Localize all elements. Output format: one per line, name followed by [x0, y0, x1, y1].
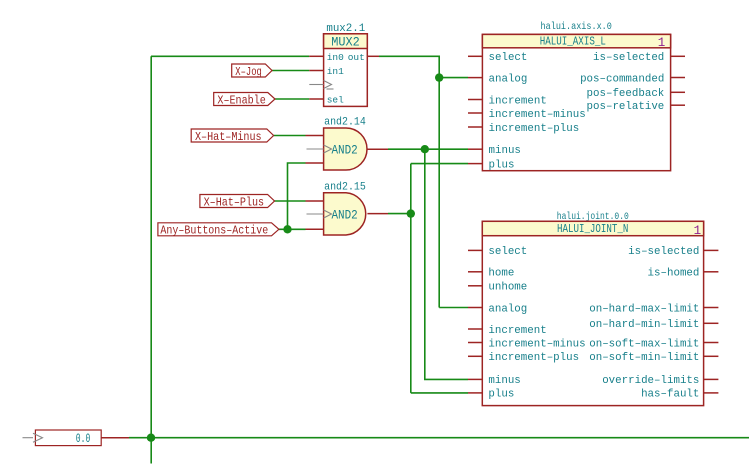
HALUI_JOINT_N body	[482, 221, 703, 405]
svg-text:select: select	[488, 246, 527, 258]
net label X-Jog	[232, 64, 272, 79]
wire plus net to halui.axis plus pin	[411, 163, 468, 165]
wire net X-Jog-Selected: vertical trunk from mux in0 down to 0.0 signal	[150, 56, 152, 463]
wire X-Enable to mux sel	[275, 98, 309, 100]
junction plus net	[407, 209, 415, 217]
pin plus	[468, 392, 482, 394]
svg-text:pos–feedback: pos–feedback	[587, 88, 665, 100]
pin input b	[306, 162, 324, 164]
wire net X-Jog-Selected: horizontal to mux in0	[151, 55, 309, 57]
svg-text:0.0: 0.0	[76, 432, 91, 446]
pin is-selected	[704, 249, 719, 251]
svg-text:MUX2: MUX2	[331, 36, 360, 50]
pin stub from 0.0 box	[101, 437, 129, 439]
svg-text:on–hard–max–limit: on–hard–max–limit	[589, 303, 699, 315]
pin minus	[468, 378, 482, 380]
svg-text:sel: sel	[327, 95, 344, 106]
pin increment-plus	[468, 355, 482, 357]
pin increment-minus	[468, 112, 482, 114]
pin on-soft-min-limit	[704, 355, 719, 357]
svg-text:is–selected: is–selected	[593, 52, 664, 64]
pin unhome	[468, 285, 482, 287]
0.0 value box	[35, 430, 101, 446]
svg-text:pos–relative: pos–relative	[587, 101, 665, 113]
svg-text:1: 1	[658, 36, 666, 50]
HALUI_AXIS_L body	[482, 34, 670, 170]
unconnected input arrow on and2.15	[307, 210, 332, 218]
svg-text:out: out	[348, 52, 365, 63]
wire Any-Buttons-Active to and2.15 input b	[279, 228, 306, 230]
pin home	[468, 271, 482, 273]
net label X-Enable	[214, 93, 275, 108]
pin input a	[306, 200, 324, 202]
svg-text:increment–plus: increment–plus	[488, 352, 579, 364]
wire X-Jog to mux in1	[272, 70, 309, 72]
svg-text:X–Hat–Minus: X–Hat–Minus	[195, 130, 262, 144]
svg-text:and2.14: and2.14	[324, 117, 366, 129]
pin out	[367, 213, 388, 215]
pin sel	[309, 98, 323, 100]
svg-text:pos–commanded: pos–commanded	[580, 73, 664, 85]
svg-text:on–hard–min–limit: on–hard–min–limit	[589, 319, 699, 331]
pin out	[367, 55, 379, 57]
pin plus	[468, 163, 482, 165]
gate and2.15 AND2	[306, 181, 389, 235]
wire Any-Buttons-Active branch to and2.14 input b	[288, 163, 306, 229]
pin analog	[468, 307, 482, 309]
net label X-Hat-Minus	[191, 129, 273, 144]
component halui.axis.x.0 HALUI_AXIS_L	[468, 21, 685, 171]
svg-text:plus: plus	[489, 159, 515, 171]
pin in1	[309, 70, 323, 72]
pin increment	[468, 99, 482, 101]
pin input b	[306, 228, 324, 230]
AND2 body	[324, 128, 367, 170]
wire analog net to halui.axis analog pin	[439, 77, 468, 79]
svg-text:and2.15: and2.15	[324, 181, 366, 193]
junction 0.0 signal net	[147, 434, 155, 442]
pin pos-commanded	[671, 77, 685, 79]
AND2 body	[324, 193, 366, 235]
pin increment	[468, 328, 482, 330]
wire X-Hat-Minus to and2.14 input a	[274, 135, 306, 137]
svg-text:plus: plus	[488, 389, 514, 401]
pin pos-feedback	[671, 91, 685, 93]
pin pos-relative	[671, 104, 685, 106]
component halui.joint.0.0 HALUI_JOINT_N	[468, 211, 718, 406]
svg-text:X–Jog: X–Jog	[235, 65, 261, 79]
svg-text:increment: increment	[489, 95, 547, 107]
svg-text:increment–minus: increment–minus	[488, 338, 585, 350]
net label X-Hat-Plus	[200, 195, 275, 210]
svg-text:increment–minus: increment–minus	[489, 109, 586, 121]
MUX2 body	[324, 34, 368, 107]
svg-text:is–homed: is–homed	[648, 268, 700, 280]
pin out	[367, 148, 388, 150]
pin select	[468, 55, 482, 57]
pin in0	[309, 55, 323, 57]
wire mux out to analog net	[379, 56, 439, 307]
pin analog	[468, 77, 482, 79]
svg-text:on–soft–min–limit: on–soft–min–limit	[589, 352, 699, 364]
svg-text:1: 1	[694, 224, 702, 238]
svg-text:analog: analog	[488, 303, 527, 315]
component mux2.1 MUX2	[309, 23, 379, 106]
pin on-hard-min-limit	[704, 322, 719, 324]
svg-text:in0: in0	[327, 52, 344, 63]
pin increment-minus	[468, 342, 482, 344]
svg-text:HALUI_AXIS_L: HALUI_AXIS_L	[540, 34, 606, 48]
unconnected input arrow on mux	[309, 81, 333, 90]
pin is-homed	[704, 271, 719, 273]
wire analog net to halui.joint analog pin	[439, 307, 468, 309]
pin override-limits	[704, 378, 719, 380]
svg-text:unhome: unhome	[488, 282, 527, 294]
svg-text:Any–Buttons–Active: Any–Buttons–Active	[160, 224, 268, 238]
net label Any-Buttons-Active	[158, 223, 279, 238]
svg-text:increment–plus: increment–plus	[489, 123, 580, 135]
gate and2.14 AND2	[306, 117, 389, 170]
wire plus net vertical	[410, 164, 412, 393]
svg-text:in1: in1	[327, 66, 344, 77]
wire plus net to halui.joint plus pin	[411, 392, 468, 394]
wire and2.14 out to halui.axis minus pin	[388, 148, 468, 150]
svg-text:has–fault: has–fault	[641, 389, 699, 401]
HALUI_AXIS_L header	[482, 34, 670, 47]
svg-text:increment: increment	[488, 325, 546, 337]
junction minus net	[421, 145, 429, 153]
signal source 0.0	[23, 430, 130, 446]
pin on-soft-max-limit	[704, 342, 719, 344]
svg-text:minus: minus	[488, 375, 520, 387]
wire minus net down to halui.joint minus pin	[425, 149, 468, 379]
svg-text:HALUI_JOINT_N: HALUI_JOINT_N	[557, 222, 629, 236]
wire X-Hat-Plus to and2.15 input a	[275, 200, 306, 202]
svg-text:halui.axis.x.0: halui.axis.x.0	[541, 21, 612, 33]
svg-text:is–selected: is–selected	[628, 246, 699, 258]
pin increment-plus	[468, 126, 482, 128]
wire and2.15 out to plus net	[388, 213, 411, 215]
MUX2 header	[324, 34, 368, 49]
pin input a	[306, 135, 324, 137]
svg-text:override–limits: override–limits	[602, 375, 699, 387]
pin on-hard-max-limit	[704, 307, 719, 309]
svg-text:AND2: AND2	[331, 144, 357, 158]
input arrow into 0.0 box	[23, 433, 43, 442]
HALUI_JOINT_N header	[482, 221, 703, 235]
svg-text:on–soft–max–limit: on–soft–max–limit	[589, 338, 699, 350]
svg-text:minus: minus	[489, 145, 521, 157]
unconnected input arrow on and2.14	[307, 145, 332, 153]
svg-text:analog: analog	[489, 73, 528, 85]
svg-text:AND2: AND2	[331, 209, 357, 223]
pin minus	[468, 148, 482, 150]
wire net 0.0 signal horizontal to right edge	[129, 437, 749, 439]
svg-text:home: home	[488, 268, 514, 280]
svg-text:X–Enable: X–Enable	[217, 93, 265, 107]
pin select	[468, 249, 482, 251]
junction analog net	[435, 73, 443, 81]
svg-text:select: select	[489, 52, 528, 64]
pin has-fault	[704, 392, 719, 394]
junction Any-Buttons-Active net	[283, 225, 291, 233]
svg-text:X–Hat–Plus: X–Hat–Plus	[204, 195, 265, 209]
pin is-selected	[671, 55, 685, 57]
